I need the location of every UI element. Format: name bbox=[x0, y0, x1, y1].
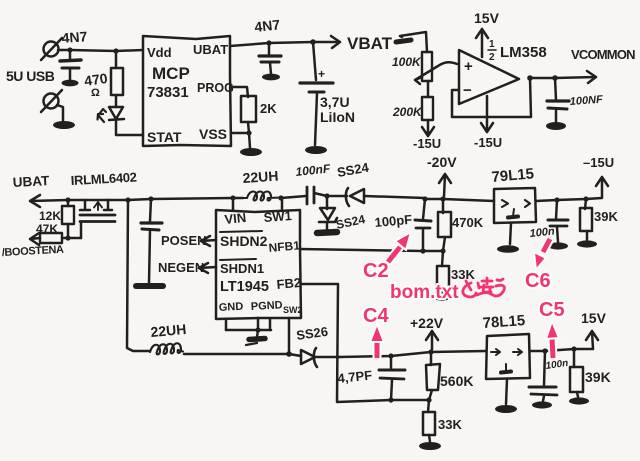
svg-text:FB2: FB2 bbox=[276, 275, 302, 292]
wire -15V output rail bbox=[536, 177, 608, 201]
resistor R2 2K bbox=[241, 96, 256, 122]
node V (SW2/diode junction) bbox=[286, 351, 292, 357]
svg-text:22UH: 22UH bbox=[150, 321, 187, 340]
node Y (4.7p bottom) bbox=[388, 397, 393, 402]
capacitor C2 100pF bbox=[415, 199, 431, 251]
ground (battery) bbox=[305, 146, 327, 154]
svg-text:200K: 200K bbox=[392, 105, 423, 119]
resistor R1 470 label bbox=[83, 70, 109, 99]
pin SW2 stub long bbox=[288, 318, 291, 354]
U5 internal arrows bbox=[491, 349, 522, 373]
node R (100p top) bbox=[422, 196, 427, 201]
wire J1 to Vdd rail bbox=[58, 49, 70, 52]
wire LED to STAT bbox=[116, 120, 143, 135]
svg-text:MCP: MCP bbox=[152, 64, 190, 83]
diode D4 SS26 (series, pointing right) bbox=[289, 348, 340, 367]
ground (VCOMMON cap) bbox=[546, 122, 566, 130]
wire UBAT rail with left arrow bbox=[30, 195, 243, 207]
svg-text:100K: 100K bbox=[392, 55, 422, 69]
capacitor 4N7 (output) bbox=[259, 43, 281, 74]
LED D1 bbox=[98, 95, 125, 122]
ground (under C1) bbox=[62, 80, 79, 87]
node AB (39K top lower) bbox=[571, 346, 576, 351]
U4 internal arrows bbox=[502, 200, 530, 218]
node S (470K top) bbox=[440, 196, 445, 201]
lower NFB1 rail bbox=[300, 249, 443, 251]
svg-text:NFB1: NFB1 bbox=[268, 238, 301, 255]
resistor R6 47K with arrow bbox=[30, 233, 68, 245]
wire L2 to SW2 node bbox=[184, 353, 289, 356]
capacitor 100nF (series) bbox=[307, 187, 327, 204]
svg-text:1: 1 bbox=[489, 39, 495, 50]
node C (C2cap junction) bbox=[266, 40, 271, 45]
node W (4.7p top) bbox=[388, 353, 393, 358]
svg-text:bom.txt: bom.txt bbox=[390, 282, 459, 303]
svg-text:STAT: STAT bbox=[147, 129, 182, 145]
wire VBAT arrow bbox=[313, 36, 340, 48]
capacitor C4 4.7pF bbox=[379, 356, 405, 400]
wire R3 to R4 bbox=[427, 81, 430, 97]
svg-text:12K: 12K bbox=[39, 209, 61, 223]
ground (C6) bbox=[548, 242, 568, 249]
svg-text:+: + bbox=[318, 67, 325, 81]
node Q (diode pump) bbox=[324, 193, 329, 198]
resistor R7 470K bbox=[438, 199, 451, 251]
connector J1 (USB 5V pin, circle with slash) bbox=[41, 38, 62, 60]
wiper arrow to op-amp bbox=[415, 62, 457, 84]
label POSEN with arrow bbox=[161, 233, 216, 248]
IC U4 79L15 box bbox=[494, 188, 536, 223]
ground (input cap, bar) bbox=[136, 283, 163, 289]
svg-text:PGND: PGND bbox=[251, 299, 283, 313]
node H (12K/47K/gate) bbox=[65, 235, 70, 240]
svg-text:2: 2 bbox=[489, 52, 495, 63]
annotation C4 arrow bbox=[370, 324, 384, 358]
wire long left loop down bbox=[127, 200, 150, 351]
resistor R3 100K (trimmer) bbox=[422, 52, 432, 81]
op-amp -15V supply arrow bbox=[481, 96, 493, 132]
wire R2 to VSS bbox=[231, 122, 249, 133]
battery BT1 bbox=[300, 42, 333, 145]
svg-text:GND: GND bbox=[219, 301, 244, 314]
ground (U4) bbox=[497, 245, 519, 253]
svg-text:UBAT: UBAT bbox=[12, 173, 50, 190]
resistor R10 560K bbox=[426, 352, 440, 400]
svg-text:-15U: -15U bbox=[413, 136, 441, 151]
IC U1 MCP73831 box bbox=[143, 36, 231, 146]
svg-text:C2: C2 bbox=[363, 260, 389, 282]
node U (39K top) bbox=[583, 196, 588, 201]
label 1/2 LM358 bbox=[488, 39, 547, 63]
wire R4 to -15V arrow bbox=[422, 120, 434, 136]
svg-text:VSS: VSS bbox=[199, 126, 227, 142]
FB2 wire right and down bbox=[301, 284, 429, 402]
svg-text:+22V: +22V bbox=[410, 315, 444, 331]
svg-text:560K: 560K bbox=[440, 373, 473, 389]
connector J2 (USB GND pin, circle with slash) bbox=[41, 90, 62, 112]
wire UBAT rail bbox=[230, 42, 313, 46]
-20V arrow bbox=[439, 174, 451, 197]
node E (VBAT battery junction) bbox=[310, 39, 316, 45]
pin VIN stub bbox=[232, 198, 235, 210]
resistor R12 39K bbox=[570, 349, 583, 397]
ground (diode pump) bbox=[317, 232, 337, 233]
svg-text:-20V: -20V bbox=[427, 154, 457, 170]
capacitor Cin (input) bbox=[141, 199, 162, 283]
svg-text:UBAT: UBAT bbox=[193, 42, 228, 57]
wire -20V rail to 79L15 bbox=[425, 199, 494, 201]
ground (33K lower) bbox=[419, 442, 441, 450]
label NEGEN with arrow bbox=[158, 260, 216, 275]
pin GND stub U4 bbox=[510, 223, 511, 244]
svg-text:POSEN: POSEN bbox=[161, 233, 207, 248]
node F (op-amp output) bbox=[527, 75, 533, 81]
node A (rail / C1 junction) bbox=[67, 47, 72, 52]
svg-text:SHDN2: SHDN2 bbox=[220, 233, 268, 249]
svg-text:4N7: 4N7 bbox=[61, 28, 88, 46]
node B (470R branch) bbox=[113, 48, 118, 53]
svg-text:C5: C5 bbox=[539, 299, 565, 321]
svg-text:C4: C4 bbox=[363, 305, 389, 327]
ground (39K lower) bbox=[569, 397, 589, 404]
svg-text:LT1945: LT1945 bbox=[220, 279, 269, 295]
svg-text:PROG: PROG bbox=[197, 81, 234, 95]
node J (long loop branch) bbox=[125, 197, 130, 202]
IC U5 78L15 box bbox=[486, 334, 530, 379]
svg-text:Ω: Ω bbox=[91, 87, 100, 99]
VBAT tab (op-amp divider feed) bbox=[396, 32, 427, 52]
svg-text:22UH: 22UH bbox=[242, 168, 279, 186]
capacitor C5 100n bbox=[529, 351, 557, 401]
svg-text:VIN: VIN bbox=[224, 210, 247, 227]
inductor L2 22UH bbox=[150, 343, 183, 354]
wire +22V rail bbox=[340, 351, 486, 357]
svg-text:33K: 33K bbox=[438, 417, 462, 432]
svg-text:78L15: 78L15 bbox=[482, 312, 526, 332]
svg-text:2K: 2K bbox=[260, 101, 277, 116]
node X (560K top / +22V) bbox=[428, 349, 433, 354]
svg-text:SHDN1: SHDN1 bbox=[220, 261, 264, 276]
wire VSS node to ground bbox=[249, 133, 250, 148]
svg-text:3,7U: 3,7U bbox=[320, 94, 350, 110]
op-amp +15V supply arrow bbox=[476, 29, 488, 57]
wire +15V output rail bbox=[530, 331, 598, 351]
node P (470K/33K junction) bbox=[440, 248, 445, 253]
svg-text:470K: 470K bbox=[452, 215, 484, 230]
capacitor C6 100n bbox=[548, 200, 568, 242]
node K (input cap branch) bbox=[148, 196, 153, 201]
ground (C5) bbox=[532, 401, 552, 408]
resistor R1 470 bbox=[111, 51, 123, 95]
svg-text:−: − bbox=[463, 82, 472, 99]
capacitor C1 4N7 bbox=[60, 50, 81, 80]
node L (SW1 junction) bbox=[278, 195, 283, 200]
svg-text:+: + bbox=[464, 58, 473, 75]
resistor R11 33K bbox=[423, 400, 435, 442]
wire SW1 node to 100nF bbox=[281, 196, 306, 198]
pin PGND stub bbox=[257, 318, 260, 330]
svg-text:15V: 15V bbox=[474, 10, 500, 26]
ground (U3, hatched) bbox=[246, 330, 265, 345]
+22V arrow bbox=[426, 331, 438, 349]
pin GND stub U5 bbox=[506, 379, 507, 404]
wire PROG to R2 bbox=[231, 87, 248, 97]
svg-text:33K: 33K bbox=[451, 267, 475, 282]
diode D3 SS24 (shunt to ground) bbox=[319, 196, 337, 230]
resistor R8 33K bbox=[437, 251, 449, 294]
ground (39K) bbox=[577, 240, 597, 247]
diode D2 SS24 (series, pointing left) bbox=[327, 188, 425, 206]
feedback wire output to inverting input bbox=[452, 78, 531, 117]
node AA (100n top lower) bbox=[542, 348, 547, 353]
pin label SHDN2 with overline bbox=[220, 231, 268, 249]
wire VCOMMON arrow bbox=[530, 71, 596, 83]
pin SW1 stub bbox=[281, 198, 284, 210]
pin label SHDN1 with overline bbox=[220, 259, 264, 276]
svg-text:5U USB: 5U USB bbox=[6, 68, 55, 84]
node T (100n top) bbox=[554, 197, 559, 202]
resistor R4 200K bbox=[422, 97, 433, 120]
wire gate to node H bbox=[68, 237, 81, 240]
svg-text:SW2: SW2 bbox=[283, 305, 303, 315]
IC U3 LT1945 box bbox=[216, 210, 301, 319]
annotation C2 arrow bbox=[388, 232, 411, 262]
node I (rail R5 junction) bbox=[65, 197, 70, 202]
svg-text:Vdd: Vdd bbox=[147, 45, 172, 60]
svg-text:LiIoN: LiIoN bbox=[320, 109, 355, 125]
node Z (560K/33K junction) bbox=[426, 397, 431, 402]
svg-text:LM358: LM358 bbox=[500, 44, 547, 61]
wire J2 to ground bbox=[57, 105, 63, 121]
svg-text:VCOMMON: VCOMMON bbox=[571, 47, 635, 62]
node O (100p bottom) bbox=[420, 248, 425, 253]
svg-text:73831: 73831 bbox=[147, 84, 189, 101]
ground (33K) bbox=[432, 293, 452, 300]
annotation bom.txt と違う bbox=[390, 278, 505, 303]
ground (USB) bbox=[53, 121, 75, 129]
svg-text:-15U: -15U bbox=[474, 135, 502, 150]
inductor L1 22UH bbox=[243, 192, 281, 201]
svg-text:–15U: –15U bbox=[583, 155, 614, 170]
svg-text:39K: 39K bbox=[585, 369, 611, 385]
resistor R9 39K bbox=[580, 199, 592, 241]
capacitor 100NF (VCOMMON) bbox=[547, 78, 569, 122]
transistor Q1 IRLML6402 bbox=[80, 200, 115, 238]
svg-text:39K: 39K bbox=[594, 209, 618, 224]
op-amp U2 LM358 bbox=[459, 50, 519, 104]
svg-text:C6: C6 bbox=[525, 270, 551, 292]
ground (U5) bbox=[495, 405, 517, 413]
node G (100NF junction) bbox=[552, 75, 558, 81]
resistor R5 12K bbox=[62, 200, 74, 238]
pin GND stub bbox=[225, 319, 228, 330]
svg-text:100NF: 100NF bbox=[569, 94, 603, 108]
svg-text:15V: 15V bbox=[581, 310, 607, 326]
svg-text:VBAT: VBAT bbox=[347, 34, 393, 53]
svg-text:4N7: 4N7 bbox=[254, 16, 281, 35]
wire GND/PGND join bbox=[226, 329, 271, 332]
svg-text:NEGEN: NEGEN bbox=[158, 260, 204, 275]
annotation C6 arrow bbox=[534, 239, 550, 270]
ground (under 4N7) bbox=[262, 74, 280, 81]
annotation C5 arrow bbox=[546, 321, 559, 358]
node N (pgnd) bbox=[255, 327, 260, 332]
node D (VSS junction) bbox=[246, 130, 251, 135]
node M (VIN) bbox=[230, 195, 235, 200]
wire Vdd rail to MCP box bbox=[70, 50, 143, 51]
ground (VSS) bbox=[240, 148, 262, 156]
svg-text:SW1: SW1 bbox=[263, 208, 292, 225]
